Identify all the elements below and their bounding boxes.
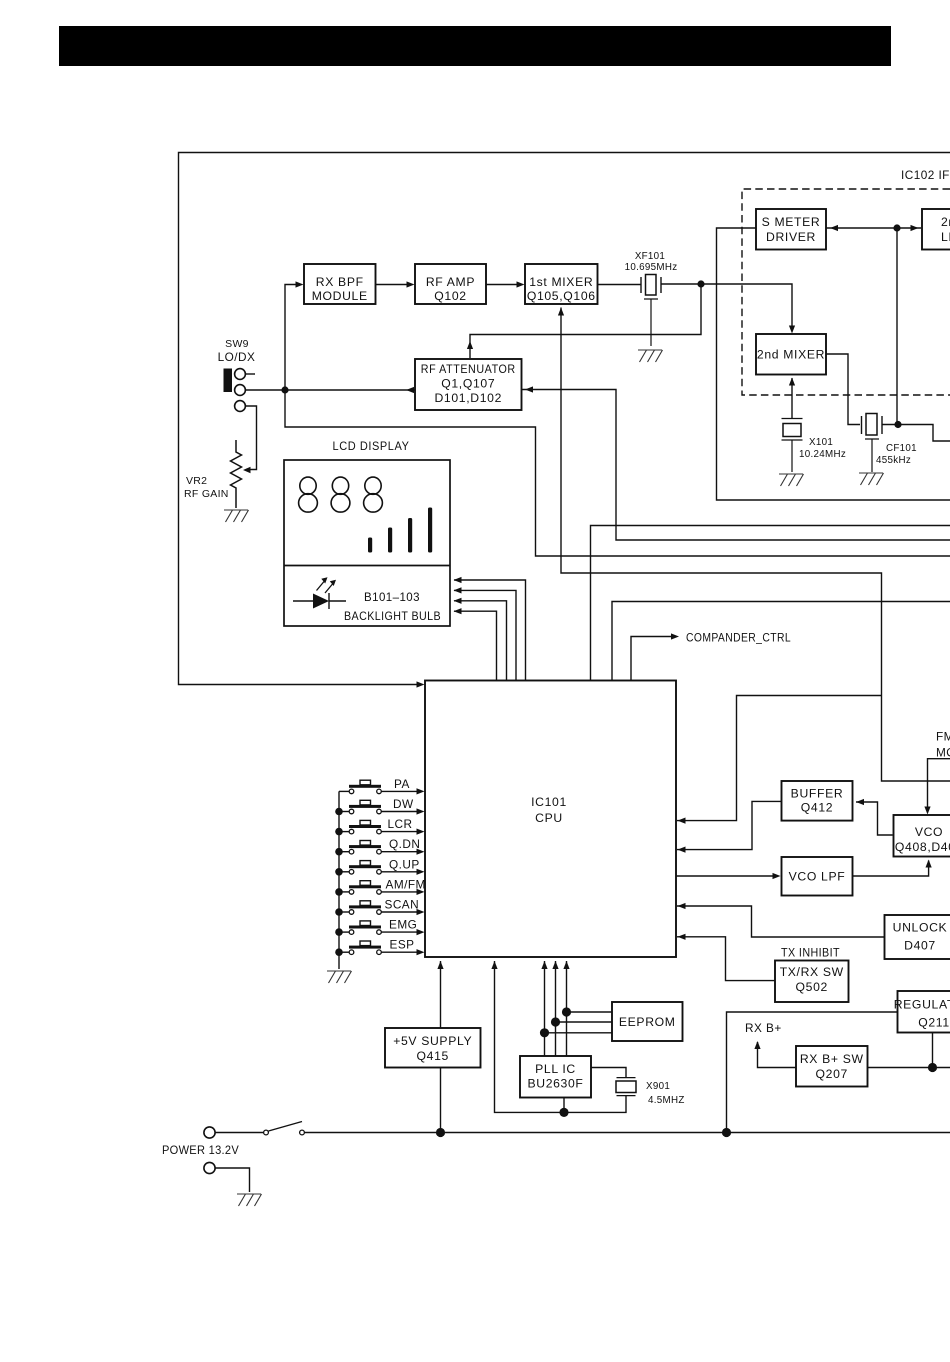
wire CPU top feed A: [591, 526, 950, 681]
svg-text:Q102: Q102: [434, 289, 466, 303]
svg-text:Q211: Q211: [918, 1016, 950, 1030]
svg-text:IC102 IF S: IC102 IF S: [901, 168, 950, 182]
title bar: [59, 26, 891, 66]
wire XF101 output to 2nd mixer: [661, 284, 792, 330]
block RF AMP Q102: [415, 264, 486, 304]
block UNLOCK D407: [885, 915, 950, 959]
wire X901 return to CPU: [495, 961, 627, 1112]
svg-text:SCAN: SCAN: [385, 898, 420, 912]
svg-text:VCO LPF: VCO LPF: [789, 870, 846, 884]
junction XF101 output node: [697, 280, 704, 287]
svg-text:Q502: Q502: [796, 980, 828, 994]
wire 1st mixer to XF101: [598, 284, 642, 286]
wire EEPROM data 2: [556, 1021, 613, 1023]
switch SCAN pushbutton: [339, 911, 349, 913]
svg-text:SW9: SW9: [225, 338, 249, 350]
crystal X901: [617, 1078, 636, 1096]
wire TX/RX switch to CPU: [677, 937, 775, 981]
svg-text:RX B+: RX B+: [745, 1021, 782, 1035]
svg-text:FM: FM: [936, 730, 950, 744]
wire power negative to ground: [215, 1168, 249, 1192]
svg-text:2nd: 2nd: [941, 215, 950, 229]
svg-text:IC101: IC101: [531, 795, 567, 809]
svg-text:RF GAIN: RF GAIN: [184, 488, 229, 500]
wire VCO buffer to CPU: [677, 801, 781, 849]
IC102 IF section dashed box: [742, 189, 950, 395]
wire CPU to VCO LPF: [676, 875, 777, 877]
junction EEPROM data 1: [562, 1007, 571, 1016]
wire EEPROM data 3: [545, 1032, 613, 1034]
wire 2nd mixer to CF101: [826, 354, 860, 425]
wire unlock detect to CPU: [677, 906, 884, 937]
switch Q.UP pushbutton: [339, 871, 349, 873]
wire main frame boundary: [179, 153, 950, 685]
wire LCD data 3: [454, 601, 507, 680]
switch AM/FM pushbutton: [339, 891, 349, 893]
wire button common bus: [338, 791, 340, 969]
block TX/RX SW Q502: [775, 961, 849, 1003]
wire IF takeoff to RF attenuator: [470, 284, 701, 358]
block BUFFER Q412: [782, 781, 853, 821]
wire RF attenuator to antenna node: [285, 389, 415, 391]
block PLL IC BU2630F: [520, 1056, 591, 1098]
switch Q.DN pushbutton: [339, 851, 349, 853]
junction regulator feed on power rail: [722, 1128, 731, 1137]
node RX B+ output: [758, 1042, 797, 1068]
wire LCD data 4: [454, 611, 497, 680]
block S METER DRIVER: [756, 209, 826, 250]
wire RF amp to 1st mixer: [486, 284, 521, 286]
wire PLL to X901: [591, 1068, 626, 1078]
wire +5V supply to power rail: [440, 1068, 442, 1133]
wire CPU to FM mod line: [677, 696, 882, 821]
ground for VR2: [224, 510, 249, 522]
svg-text:2nd MIXER: 2nd MIXER: [757, 348, 825, 362]
wire RX BPF to RF amp: [376, 284, 412, 286]
svg-text:AM/FM: AM/FM: [386, 877, 426, 891]
svg-text:LO/DX: LO/DX: [218, 350, 256, 364]
wire power terminal to switch: [215, 1132, 263, 1134]
junction PLL return node: [559, 1108, 568, 1117]
svg-text:X901: X901: [646, 1081, 670, 1092]
ceramic filter CF101: [862, 416, 883, 434]
wire RF attenuator control input: [522, 390, 950, 541]
switch EMG pushbutton: [339, 931, 349, 933]
junction EEPROM data 3: [540, 1028, 549, 1037]
wire PLL data 3 to CPU: [566, 961, 568, 1056]
wire LCD data 2: [454, 590, 516, 680]
wire LCD data 1: [454, 580, 526, 680]
switch DW pushbutton: [339, 811, 349, 813]
svg-text:ESP: ESP: [390, 938, 415, 952]
switch power SW blade: [269, 1122, 303, 1132]
wire power rail: [304, 1132, 950, 1134]
wire EEPROM data 1: [567, 1011, 613, 1013]
switch power SW contact a: [264, 1130, 269, 1135]
svg-text:BU2630F: BU2630F: [527, 1077, 583, 1091]
svg-text:EMG: EMG: [389, 918, 417, 932]
wire CPU top feed B: [612, 602, 950, 681]
node FM MOD input: [928, 759, 950, 811]
potentiometer VR2: [231, 440, 242, 508]
svg-text:+5V SUPPLY: +5V SUPPLY: [393, 1034, 472, 1048]
svg-text:10.695MHz: 10.695MHz: [625, 262, 678, 273]
svg-text:XF101: XF101: [635, 251, 665, 262]
svg-text:Q207: Q207: [816, 1067, 848, 1081]
svg-text:1st MIXER: 1st MIXER: [529, 275, 593, 289]
LCD signal meter bars: [368, 538, 372, 553]
svg-text:DRIVER: DRIVER: [766, 230, 816, 244]
svg-text:X101: X101: [809, 437, 833, 448]
svg-text:LIM: LIM: [941, 230, 950, 244]
svg-text:Q105,Q106: Q105,Q106: [527, 289, 596, 303]
node COMPANDER_CTRL: [631, 637, 674, 681]
svg-text:Q.UP: Q.UP: [389, 857, 420, 871]
svg-text:BACKLIGHT BULB: BACKLIGHT BULB: [344, 609, 441, 623]
ground for X101: [779, 474, 804, 486]
ground for XF101: [638, 350, 663, 362]
wire S meter to 2nd limiter: [826, 227, 921, 229]
svg-text:RF ATTENUATOR: RF ATTENUATOR: [421, 362, 516, 376]
svg-text:UNLOCK: UNLOCK: [893, 921, 948, 935]
junction CF101 output node: [894, 421, 901, 428]
block VCO Q408 D409: [894, 815, 950, 857]
switch LCR pushbutton: [339, 831, 349, 833]
switch POWER terminal +: [204, 1127, 215, 1138]
svg-text:10.24MHz: 10.24MHz: [799, 449, 846, 460]
LCD display box: [284, 460, 450, 626]
junction antenna node: [281, 386, 288, 393]
wire SW9 common branch: [285, 390, 950, 556]
svg-text:MODULE: MODULE: [312, 289, 368, 303]
ground for button bus: [327, 971, 352, 983]
LCD digits 888: [300, 477, 316, 494]
svg-text:POWER 13.2V: POWER 13.2V: [162, 1145, 239, 1157]
block +5V SUPPLY Q415: [385, 1028, 481, 1068]
switch SW9 contact 3: [235, 401, 246, 412]
wire regulator to RX B+ switch: [868, 1033, 950, 1068]
svg-text:D101,D102: D101,D102: [434, 391, 502, 405]
svg-text:TX/RX SW: TX/RX SW: [780, 965, 844, 979]
junction regulator output: [928, 1063, 937, 1072]
svg-text:455kHz: 455kHz: [876, 455, 911, 466]
svg-text:CF101: CF101: [886, 443, 917, 454]
LED backlight B101-103 symbol: [293, 593, 346, 609]
svg-text:COMPANDER_CTRL: COMPANDER_CTRL: [686, 631, 791, 645]
block EEPROM: [612, 1002, 683, 1041]
svg-text:Q.DN: Q.DN: [389, 837, 420, 851]
svg-text:Q415: Q415: [417, 1049, 449, 1063]
wire PLL ground stub: [563, 1098, 565, 1113]
switch SW9 contact 2: [235, 385, 246, 396]
wire CF101 output: [882, 425, 950, 442]
svg-text:BUFFER: BUFFER: [791, 787, 844, 801]
wire VCO LPF to VCO: [853, 861, 929, 877]
wire IF node down to CF101: [896, 228, 898, 425]
ground for CF101: [859, 473, 884, 485]
wire 1st mixer LO input: [561, 308, 950, 782]
ground for power input: [237, 1194, 262, 1206]
block 1st MIXER Q105 Q106: [525, 264, 598, 304]
svg-text:B101–103: B101–103: [364, 590, 420, 604]
svg-text:Q408,D409: Q408,D409: [895, 840, 950, 854]
svg-text:REGULATOR: REGULATOR: [894, 998, 950, 1012]
wire PLL data 1 to CPU: [544, 961, 546, 1056]
wire VCO to buffer: [856, 802, 893, 835]
block RX B+ SW Q207: [796, 1046, 868, 1087]
junction IF detector node: [893, 224, 900, 231]
svg-text:4.5MHZ: 4.5MHZ: [648, 1095, 685, 1106]
wire +5V supply to CPU: [440, 961, 442, 1028]
wire X101 to 2nd mixer: [791, 378, 793, 418]
junction EEPROM data 2: [551, 1017, 560, 1026]
svg-text:LCR: LCR: [388, 817, 413, 831]
block 2nd MIXER: [756, 334, 826, 375]
switch POWER terminal -: [204, 1162, 215, 1173]
svg-text:LCD DISPLAY: LCD DISPLAY: [333, 439, 410, 453]
svg-text:Q1,Q107: Q1,Q107: [441, 377, 495, 391]
svg-text:RF AMP: RF AMP: [426, 275, 475, 289]
svg-text:PLL IC: PLL IC: [535, 1062, 576, 1076]
svg-text:S METER: S METER: [762, 215, 821, 229]
switch ESP pushbutton: [339, 951, 349, 953]
block RX BPF MODULE: [304, 264, 376, 304]
block REGULATOR Q211: [898, 991, 950, 1033]
IC101 CPU block: [425, 681, 676, 958]
block RF ATTENUATOR Q1 Q107 D101 D102: [415, 359, 522, 410]
svg-text:MOD: MOD: [936, 746, 950, 760]
crystal X101: [782, 419, 803, 441]
wire S meter driver output: [717, 228, 950, 500]
svg-text:Q412: Q412: [801, 801, 833, 815]
wire power rail to regulator: [727, 1012, 898, 1133]
switch PA pushbutton: [339, 790, 349, 792]
block 2nd LIMITER (clipped at edge): [922, 209, 950, 250]
svg-text:TX INHIBIT: TX INHIBIT: [781, 946, 840, 960]
wire antenna node to RX BPF: [285, 285, 300, 391]
svg-text:CPU: CPU: [535, 811, 563, 825]
svg-text:EEPROM: EEPROM: [619, 1015, 676, 1029]
svg-text:VCO: VCO: [915, 825, 943, 839]
switch SW9 slider: [224, 369, 233, 393]
switch SW9 contact 1: [235, 369, 246, 380]
crystal filter XF101: [641, 277, 661, 293]
svg-text:RX BPF: RX BPF: [316, 275, 364, 289]
switch power SW contact b: [300, 1130, 305, 1135]
svg-text:PA: PA: [394, 777, 410, 791]
svg-text:DW: DW: [393, 797, 414, 811]
wire PLL data 2 to CPU: [555, 961, 557, 1056]
svg-text:RX B+ SW: RX B+ SW: [800, 1052, 864, 1066]
svg-text:VR2: VR2: [186, 475, 207, 487]
svg-text:D407: D407: [904, 939, 936, 953]
block VCO LPF: [782, 857, 853, 896]
junction +5V supply on power rail: [436, 1128, 445, 1137]
